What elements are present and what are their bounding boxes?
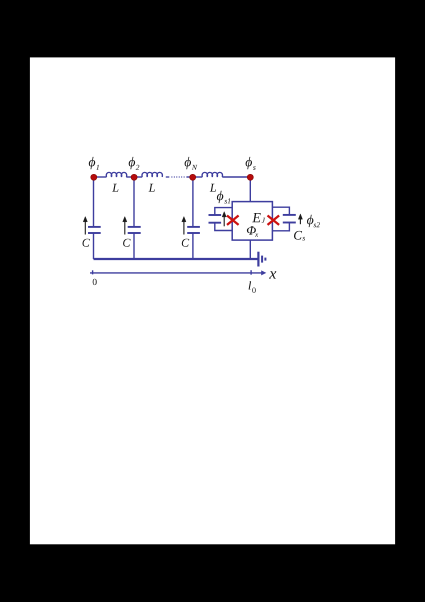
label C_s glyph [294, 231, 302, 240]
label phi_s2 glyph [307, 215, 313, 227]
label phi_s1 glyph [217, 191, 223, 203]
arrow phi_s2 [298, 214, 302, 224]
node phi_s [247, 174, 253, 180]
label phi_1 glyph [89, 157, 95, 169]
capacitor C1 plates [88, 227, 101, 233]
wire node s down to SQUID [249, 177, 251, 202]
wire C1 to ground rail [93, 234, 95, 260]
wire L1 to node2 [126, 176, 134, 178]
label L1 value [112, 184, 118, 192]
label C_s sub [302, 237, 305, 241]
inductor L1 [106, 172, 126, 177]
wire nodeN to L3 [193, 176, 203, 178]
wire dotted end to nodeN [186, 176, 192, 178]
label phi_s sub [253, 166, 256, 170]
wire L3 to node s [222, 176, 250, 178]
label L3 value [210, 184, 216, 192]
label C1 value [83, 239, 90, 247]
x axis arrowhead [261, 270, 266, 275]
label l_0 glyph [249, 281, 252, 289]
x axis [90, 270, 262, 275]
wire dotted continuation [171, 176, 186, 178]
shunt capacitor left plates [209, 215, 222, 223]
arrow phi_s1 [222, 212, 226, 227]
SQUID loop box [232, 202, 272, 241]
wire C3 to ground rail [192, 234, 194, 260]
wire node2 down to C2 [133, 177, 135, 226]
label phi_s glyph [246, 157, 252, 169]
label phi_N sub [192, 165, 198, 170]
node phi_2 [131, 174, 137, 180]
wire nodeN down to C3 [192, 177, 194, 226]
label phi_s1 sub [224, 198, 230, 203]
label C3 value [182, 239, 189, 247]
label phi_s2 sub [314, 222, 320, 227]
label E_J glyph [252, 213, 261, 222]
wire node1 down to C1 [93, 177, 95, 226]
node phi_1 [91, 174, 97, 180]
wire top rail node1 to L1 [94, 176, 107, 178]
arrow at C1 [83, 217, 87, 235]
wire dash after L2 [166, 176, 170, 178]
arrow at C2 [123, 217, 127, 235]
shunt capacitor right bracket Cs [272, 207, 289, 231]
junction X right [268, 216, 280, 225]
junction X left [227, 216, 239, 225]
label phi_2 sub [136, 165, 140, 170]
label origin 0 [93, 279, 97, 285]
ground rail [94, 258, 259, 260]
label Phi_x sub [255, 234, 258, 237]
label L2 value [149, 184, 155, 192]
node phi_N [190, 174, 196, 180]
inductor L3 [202, 172, 222, 177]
label E_J sub [262, 218, 266, 223]
shunt capacitor left bracket [215, 208, 232, 231]
arrow at C3 [182, 217, 186, 235]
capacitor C3 plates [187, 227, 200, 233]
label phi_2 glyph [129, 157, 135, 169]
inductor L2 [142, 172, 162, 177]
label x axis label [269, 271, 276, 278]
capacitor Cs plates [283, 215, 296, 223]
label Phi_x glyph [247, 226, 256, 235]
wire C2 to ground rail [133, 234, 135, 260]
label l_0 sub [252, 288, 255, 293]
label phi_1 sub [96, 165, 99, 170]
capacitor C2 plates [128, 227, 141, 233]
label C2 value [123, 239, 130, 247]
wire node2 to L2 [134, 176, 142, 178]
wire SQUID bottom to ground rail [249, 240, 251, 259]
label phi_N glyph [185, 157, 191, 169]
ground symbol [258, 252, 265, 267]
